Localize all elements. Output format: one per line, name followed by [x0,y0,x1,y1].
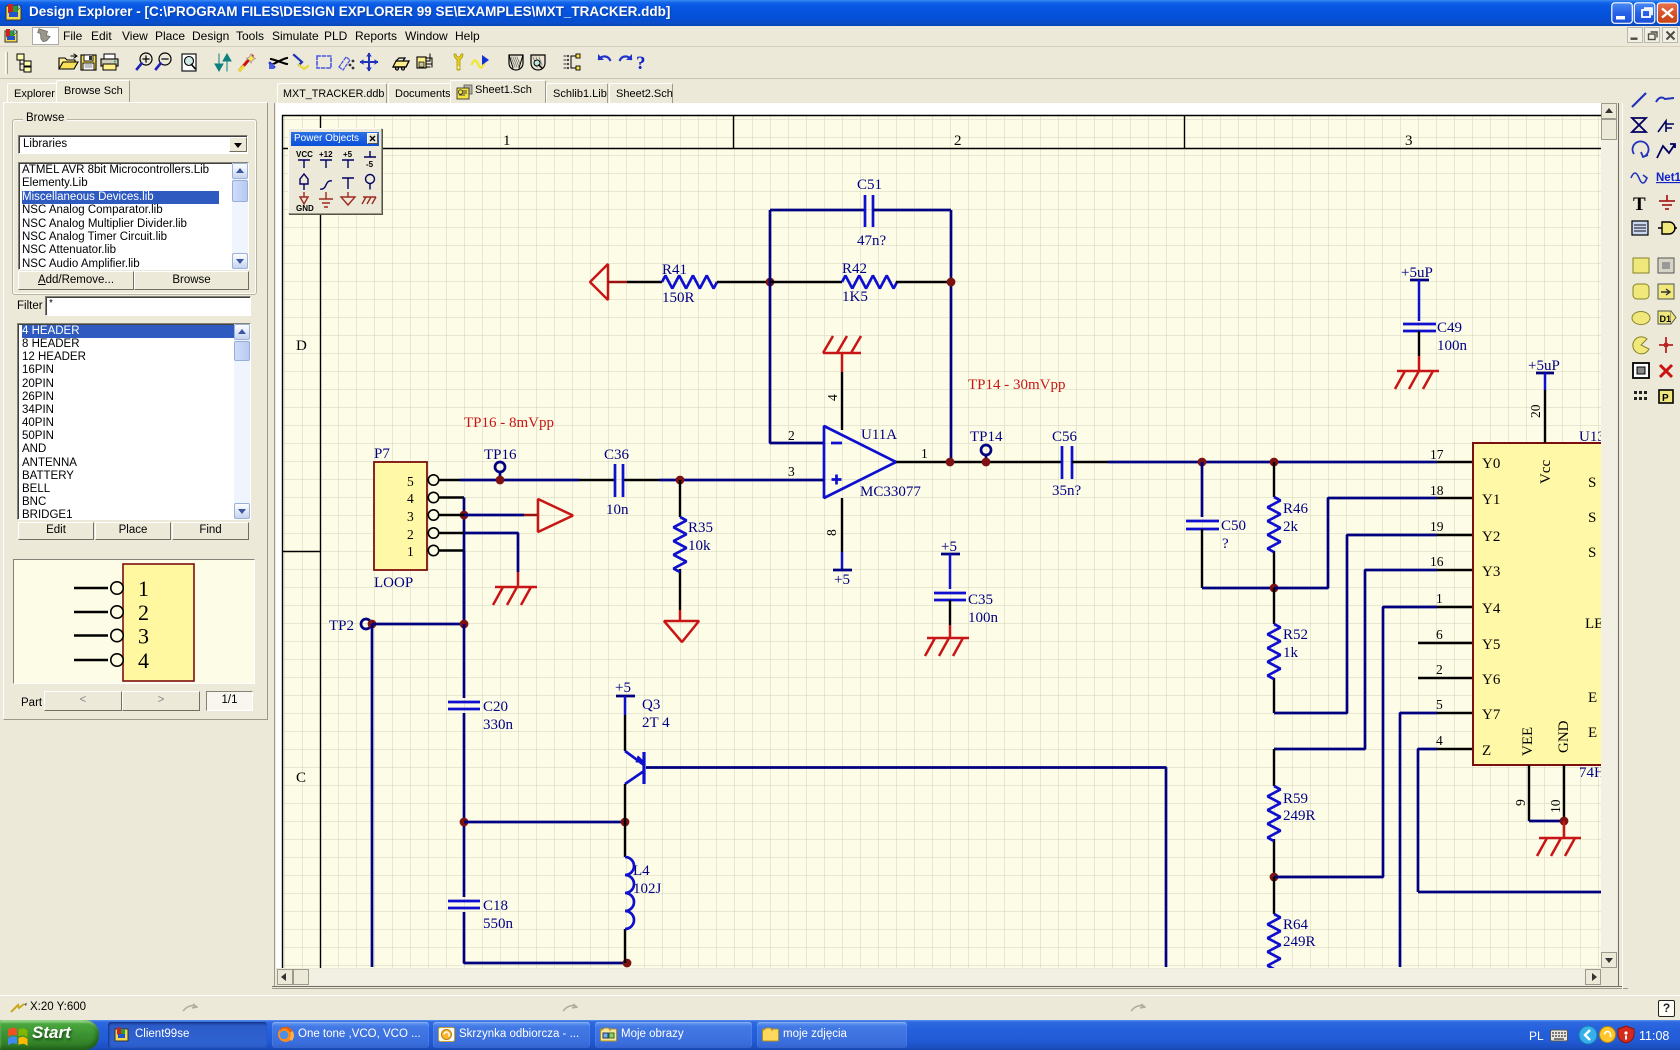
wrench [454,54,463,70]
wire C51 to right corner [873,209,951,212]
svg-text:100n: 100n [1437,338,1468,354]
wire C50 bottom to node [1201,529,1203,588]
+5 power [342,150,354,168]
shield 1 [509,55,523,70]
circle port [366,175,375,190]
wire net to IC pin 19 [1274,535,1437,713]
capacitor C49 [1403,324,1436,331]
wire C35 to ground [949,600,951,625]
test point TP14 [981,445,991,455]
svg-text:TP2: TP2 [329,618,354,634]
redo [620,54,632,60]
svg-text:10n: 10n [606,502,629,518]
svg-text:C35: C35 [968,592,993,608]
chassis ground (C35) [925,638,969,656]
svg-text:2k: 2k [1283,519,1299,535]
port arrow (left, to R41) [590,264,608,300]
node junction bus/TP2 [460,620,469,629]
svg-text:R46: R46 [1283,501,1309,517]
svg-text:+5: +5 [941,539,957,555]
task buttons [108,1022,267,1048]
stub IC pin 2 [1418,677,1473,679]
capacitor C51 [865,195,873,227]
svg-text:C51: C51 [857,177,882,193]
svg-text:4: 4 [407,491,414,506]
svg-text:18: 18 [1430,483,1444,498]
svg-text:R64: R64 [1283,917,1309,933]
svg-text:100n: 100n [968,610,999,626]
svg-text:3: 3 [407,509,414,524]
svg-text:+5uP: +5uP [1401,265,1433,281]
earth ground [319,192,333,207]
preview frame [13,559,255,684]
left panel tabs [7,83,57,103]
node junction Q3 emitter [621,818,630,827]
svg-text:+5: +5 [343,150,353,159]
wire vertical bus x464 [463,498,466,625]
Filter [17,300,43,312]
svg-text:E: E [1588,725,1597,741]
component list [17,323,251,520]
wire op-amp pin 8 down [841,498,843,552]
zoom out [156,53,171,69]
GND power ground [296,192,314,213]
resistor R46 [1273,462,1275,588]
svg-text:VCC: VCC [296,150,313,159]
svg-text:550n: 550n [483,916,514,932]
svg-text:5: 5 [407,474,414,489]
svg-text:102J: 102J [633,881,662,897]
svg-text:Net1: Net1 [1656,172,1680,184]
svg-text:-5: -5 [366,160,374,169]
wire port to R41 [608,281,627,284]
svg-text:TP16 - 8mVpp: TP16 - 8mVpp [464,415,554,431]
red wand [240,54,256,70]
svg-text:3: 3 [138,624,149,649]
svg-text:+5: +5 [615,680,631,696]
resistor R64 [1273,877,1275,914]
svg-text:R42: R42 [842,261,867,277]
svg-text:10k: 10k [688,538,711,554]
wire TP2 to bus [372,623,464,626]
wire Q3 emitter down [624,784,626,822]
window buttons [1611,2,1679,24]
node junction TP16 [496,476,505,485]
resistor R42 [842,276,897,289]
node junction R35 top [676,476,685,485]
svg-text:GND: GND [296,204,314,213]
test point TP2 [361,619,371,629]
svg-text:Y5: Y5 [1482,637,1500,653]
up down arrows [215,54,231,71]
printer [101,54,118,70]
svg-text:2T 4: 2T 4 [642,715,670,731]
svg-text:3: 3 [1405,133,1413,149]
node junction TP14 [982,458,991,467]
svg-text:8: 8 [824,529,839,536]
shield 2 [531,55,545,70]
svg-text:U11A: U11A [861,427,897,443]
svg-text:1: 1 [407,544,414,559]
svg-text:+5uP: +5uP [1528,358,1560,374]
svg-text:1: 1 [503,133,511,149]
hierarchy [17,54,31,72]
viewport background [272,103,1628,995]
open folder [59,54,78,69]
svg-text:U13: U13 [1579,429,1605,445]
stub IC pin 6 [1418,642,1473,644]
chassis ground (P7 pin2) [493,587,537,605]
svg-text:TP16: TP16 [484,447,517,463]
svg-text:4: 4 [1436,733,1443,748]
svg-text:2: 2 [1436,662,1443,677]
transistor Q3 [625,751,644,784]
node junction output/feedback [946,458,955,467]
wire power bar to pin 4 [841,353,844,372]
svg-text:2: 2 [788,428,795,443]
svg-text:?: ? [1222,536,1229,552]
Edit Place Find [18,522,94,540]
svg-text:GND: GND [1556,720,1572,753]
wire tool [294,55,308,69]
node junction R46 top [1270,458,1279,467]
svg-text:Y7: Y7 [1482,707,1501,723]
wire y822 [464,821,625,824]
move dots [339,57,354,70]
ic wires [417,54,432,68]
svg-text:1: 1 [138,576,149,601]
undo [598,54,610,60]
Start button [0,1020,99,1050]
svg-text:S: S [1588,545,1596,561]
svg-text:MC33077: MC33077 [860,484,921,500]
svg-text:S: S [1588,510,1596,526]
svg-text:1K5: 1K5 [842,289,868,305]
svg-text:L4: L4 [633,863,650,879]
toolbox [393,58,409,70]
svg-text:LOOP: LOOP [374,575,413,591]
wire to IC ground [1563,821,1566,838]
floppy [81,55,96,70]
svg-text:20: 20 [1528,404,1543,418]
pliers [269,58,287,69]
svg-text:?: ? [636,53,646,74]
Part row [21,697,42,709]
capacitor C18 [448,901,480,908]
viewport border [272,103,1628,989]
wire R41 to node [717,281,770,283]
svg-text:C: C [296,770,306,786]
svg-text:Y2: Y2 [1482,529,1500,545]
svg-text:S: S [1588,475,1596,491]
svg-text:VEE: VEE [1520,727,1536,756]
IC U13 body [1473,443,1615,765]
svg-text:TP14 - 30mVpp: TP14 - 30mVpp [968,377,1066,393]
wire P7 pin4 [439,496,464,498]
svg-text:C20: C20 [483,699,508,715]
port arrow (right) [538,499,573,532]
power +5 (op-amp) [833,569,852,572]
svg-text:1: 1 [921,446,928,461]
svg-text:5: 5 [1436,697,1443,712]
wire +5 to Q3 collector [624,715,626,751]
svg-text:2: 2 [407,527,414,542]
P7 pin circles [427,475,439,556]
wire net to IC pin 18 [1274,498,1437,588]
wire Q3 base right and down [646,768,1166,968]
chassis ground (C49) [1395,371,1439,389]
svg-text:2: 2 [138,600,149,625]
node junction bottom wire [623,959,632,968]
wire net to IC pin 16 / R59 top [1274,570,1437,749]
combo [18,135,248,154]
zoom doc [182,54,196,71]
signal ground [341,192,355,205]
wire IC pin 10 [1563,765,1565,821]
capacitor C56 [1062,446,1072,479]
chassis ground (IC) [1537,838,1581,856]
svg-text:R41: R41 [662,262,687,278]
wire feedback left vertical [770,210,824,443]
scrollbars [277,103,1618,985]
node junction bus y822 [460,818,469,827]
svg-text:+5: +5 [834,572,850,588]
MDI child buttons [1627,27,1679,44]
svg-text:D: D [296,338,307,354]
resistor R52 [1273,588,1275,713]
svg-text:4: 4 [138,648,149,673]
svg-text:D1: D1 [1660,314,1672,324]
wire C56 to IC pin 17 [1072,461,1108,463]
library list [18,162,249,270]
test point TP16 [495,462,505,472]
svg-text:Q3: Q3 [642,697,660,713]
pin list [564,54,580,70]
signal ground (R35) [679,610,682,621]
svg-text:17: 17 [1430,447,1444,462]
node junction C50 tap [1198,458,1207,467]
svg-text:E: E [1588,690,1597,706]
svg-text:Y4: Y4 [1482,601,1501,617]
svg-text:150R: 150R [662,290,695,306]
capacitor C20 [448,702,480,709]
node junction TP2 [368,620,377,629]
dashed selection [317,56,331,68]
node junction IC ground [1560,817,1569,826]
scrollbar [232,163,248,269]
svg-text:4: 4 [825,394,840,401]
svg-text:C50: C50 [1221,518,1246,534]
wire TP2 down [371,624,374,967]
svg-text:T: T [1633,194,1646,215]
wire R42 to node [896,281,951,283]
svg-text:Y0: Y0 [1482,456,1500,472]
svg-text:1k: 1k [1283,645,1299,661]
wire Vcc pin 20 [1544,390,1546,443]
node junction R46 bottom [1270,584,1279,593]
svg-text:P7: P7 [374,446,390,462]
svg-text:LE: LE [1585,616,1603,632]
svg-text:C56: C56 [1052,429,1078,445]
power bar (op-amp pin 4 supply) [823,336,861,353]
svg-text:3: 3 [788,464,795,479]
sheet background [282,115,1601,968]
sine play [472,55,489,68]
capacitor C36 [579,479,659,481]
VCC power [296,150,313,168]
svg-text:6: 6 [1436,627,1443,642]
svg-text:2: 2 [954,133,962,149]
op-amp U11A [824,426,896,498]
svg-text:10: 10 [1548,799,1563,813]
zoom in [137,53,152,69]
+12 power [319,150,333,168]
node junction P7 pin3 [460,511,469,520]
wire P7 pin5 to C36 [439,479,460,481]
svg-text:C49: C49 [1437,320,1462,336]
svg-text:249R: 249R [1283,808,1316,824]
svg-text:R52: R52 [1283,627,1308,643]
svg-text:TP14: TP14 [970,429,1003,445]
node junction R59 bottom [1270,873,1279,882]
chassis ground [362,197,376,204]
wire feedback right vertical [950,210,953,462]
node junction right feedback [947,278,956,287]
wire top to C51 [770,209,865,212]
wire P7 pin1 [439,549,464,551]
wire P7 pin3 to port [439,514,464,516]
resistor R59 [1273,749,1275,877]
wire net to IC pin 1 [1274,607,1437,877]
svg-text:Z: Z [1482,743,1491,759]
svg-text:1: 1 [1436,591,1443,606]
svg-text:P: P [1662,393,1669,404]
svg-text:C18: C18 [483,898,508,914]
svg-text:330n: 330n [483,717,514,733]
svg-text:19: 19 [1430,519,1444,534]
big cross [360,53,379,72]
resistor R35 [679,480,681,610]
wire P7 pin2 to ground [439,532,464,534]
tray [1529,1029,1544,1043]
svg-text:Vcc: Vcc [1538,460,1554,484]
capacitor C50 [1186,521,1219,529]
svg-text:249R: 249R [1283,934,1316,950]
wire op-amp output [896,461,950,463]
Add/Remove + Browse buttons [18,271,134,290]
Browse group box [12,119,257,295]
arrow power port [300,174,308,190]
inductor L4 [624,822,626,963]
wave port [320,181,332,189]
svg-text:R35: R35 [688,520,713,536]
svg-text:C36: C36 [604,447,630,463]
sheet border / ruler [282,115,1601,968]
-5 power [364,151,376,169]
wire C36 to op-amp pin 3 [659,479,824,482]
svg-text:+12: +12 [319,150,333,159]
wire C49 to ground [1418,331,1420,356]
resistor R41 [662,276,717,289]
svg-text:16: 16 [1430,554,1444,569]
wire pins 9-10 join [1529,820,1564,823]
svg-text:R59: R59 [1283,791,1308,807]
wire node to R42 [770,281,842,283]
svg-text:35n?: 35n? [1052,483,1082,499]
wire net IC pin 5 down [1400,713,1437,967]
svg-text:47n?: 47n? [857,233,887,249]
wire net IC pin 4 right [1418,749,1601,892]
svg-text:Y6: Y6 [1482,672,1501,688]
connector P7 [374,462,427,570]
palette title bar [291,132,379,146]
svg-text:Y1: Y1 [1482,492,1500,508]
wire C50 branch down [1201,462,1204,517]
bar port [342,178,354,189]
node junction left feedback [766,278,775,287]
wire IC pin 9 [1528,765,1530,821]
svg-text:Y3: Y3 [1482,564,1500,580]
wire bus down through C20/C18 [464,624,627,963]
svg-text:9: 9 [1513,799,1528,806]
capacitor C35 [934,593,966,600]
document tabs [277,83,387,103]
